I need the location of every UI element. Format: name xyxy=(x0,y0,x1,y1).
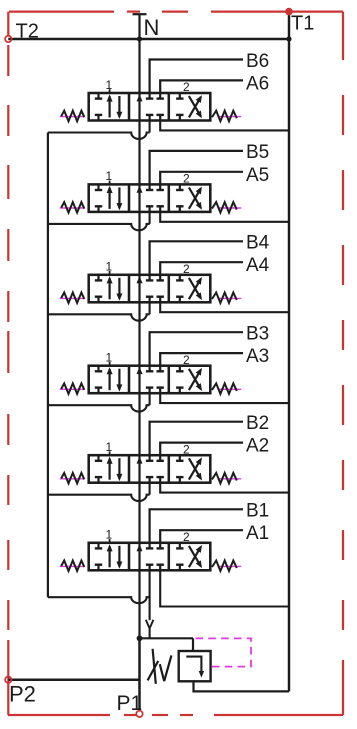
spring right of V1 xyxy=(212,561,237,572)
svg-text:2: 2 xyxy=(183,530,190,544)
svg-text:B3: B3 xyxy=(246,324,269,345)
wire carryover with crossover bridge below V5 xyxy=(48,224,150,230)
svg-text:A4: A4 xyxy=(246,255,270,276)
svg-text:B6: B6 xyxy=(246,51,269,72)
svg-text:A3: A3 xyxy=(246,346,269,367)
wire relief outlet to T1 bus xyxy=(194,681,290,691)
magenta mark left spring V2 xyxy=(60,478,84,480)
spring left of V1 xyxy=(61,561,84,572)
magenta mark left spring V3 xyxy=(60,388,84,390)
svg-text:2: 2 xyxy=(183,442,190,456)
junction N-T2 xyxy=(137,36,142,41)
valve V4 center position symbols xyxy=(137,276,143,283)
spring right of V6 xyxy=(212,111,237,122)
wire work port B1 xyxy=(150,509,243,543)
valve V5 center position symbols xyxy=(137,186,143,193)
svg-text:N: N xyxy=(144,15,160,40)
wire T1 return bus xyxy=(288,13,290,691)
wire left carryover bus xyxy=(47,133,49,598)
svg-text:T2: T2 xyxy=(16,20,39,42)
valve V4 position 2 symbols xyxy=(179,275,181,280)
relief valve internal flow path xyxy=(186,657,201,672)
valve V3 center position symbols xyxy=(137,367,143,374)
valve V3 body xyxy=(89,366,211,394)
valve V1 position 2 symbols xyxy=(179,543,181,548)
valve V1 body xyxy=(89,543,211,571)
valve V6 center position symbols xyxy=(137,94,143,101)
wire P2 pump line xyxy=(8,679,139,682)
valve V1 center position symbols xyxy=(137,544,143,551)
svg-text:2: 2 xyxy=(183,353,190,367)
wire left bus to P gallery with crossover bridge xyxy=(48,597,150,603)
svg-text:2: 2 xyxy=(183,80,190,94)
magenta mark right spring V2 xyxy=(218,478,242,480)
wire work port B3 xyxy=(150,332,243,366)
red dashed enclosure border left xyxy=(7,12,9,36)
valve V2 center position symbols xyxy=(137,456,143,463)
wire work port A1 xyxy=(160,530,243,543)
magenta mark right spring V5 xyxy=(218,207,242,209)
red dashed enclosure border top xyxy=(9,11,114,13)
svg-text:A6: A6 xyxy=(246,73,269,94)
wire carryover with crossover bridge below V4 xyxy=(48,314,150,320)
spring right of V5 xyxy=(212,202,237,213)
spring left of V2 xyxy=(61,473,84,484)
open arrowhead flow marker xyxy=(146,620,154,629)
svg-text:B2: B2 xyxy=(246,413,269,434)
spring right of V2 xyxy=(212,473,237,484)
wire T2 tank line xyxy=(8,38,289,41)
spring right of V3 xyxy=(212,383,237,394)
red dashed enclosure border bottom xyxy=(8,714,110,716)
wire return to T1 bus below V5 xyxy=(160,212,289,222)
wire work port B5 xyxy=(150,151,243,185)
valve V6 position 2 symbols xyxy=(179,93,181,98)
svg-text:A5: A5 xyxy=(246,165,269,186)
valve V3 position 2 symbols xyxy=(179,366,181,371)
wire work port A6 xyxy=(160,80,243,93)
wire work port B6 xyxy=(150,60,243,94)
svg-text:T1: T1 xyxy=(291,13,314,35)
wire V1 feed down to P gallery xyxy=(149,570,151,620)
wire carryover with crossover bridge below V6 xyxy=(48,133,150,139)
wire return to T1 bus below V2 xyxy=(160,483,289,493)
wire carryover with crossover bridge below V3 xyxy=(48,405,150,411)
wire work port B4 xyxy=(150,241,243,274)
wire work port A2 xyxy=(160,443,243,456)
valve V5 body xyxy=(89,184,211,212)
spring left of V4 xyxy=(61,293,84,304)
magenta mark left spring V4 xyxy=(60,297,84,299)
valve V1 position 1 symbols xyxy=(97,543,99,548)
spring left of V5 xyxy=(61,202,84,213)
svg-text:P2: P2 xyxy=(9,682,36,707)
red ring P2 port xyxy=(5,677,11,683)
valve V2 position 1 symbols xyxy=(97,455,99,460)
magenta mark right spring V3 xyxy=(218,388,242,390)
magenta mark left spring V5 xyxy=(60,207,84,209)
red dot T1 port xyxy=(285,8,293,16)
spring right of V4 xyxy=(212,293,237,304)
spring left of V6 xyxy=(61,111,84,122)
wire carryover with crossover bridge below V2 xyxy=(48,495,150,501)
svg-text:2: 2 xyxy=(183,262,190,276)
wire P to relief valve xyxy=(140,637,194,639)
valve V6 position 1 symbols xyxy=(97,93,99,98)
wire return to T1 bus below V4 xyxy=(160,302,289,312)
svg-text:B4: B4 xyxy=(246,233,270,254)
valve V5 position 1 symbols xyxy=(97,184,99,189)
magenta mark right spring V6 xyxy=(218,116,242,118)
svg-text:A2: A2 xyxy=(246,436,269,457)
spring left of V3 xyxy=(61,383,84,394)
wire N open-center line xyxy=(138,14,140,638)
valve V4 position 1 symbols xyxy=(97,275,99,280)
valve V3 position 1 symbols xyxy=(97,366,99,371)
valve V2 body xyxy=(89,455,211,483)
wire V1 return to T1 bus xyxy=(160,570,289,606)
magenta pilot line of relief valve xyxy=(196,638,252,666)
node N port tick xyxy=(133,13,147,15)
wire work port A5 xyxy=(160,172,243,185)
valve V5 position 2 symbols xyxy=(179,184,181,189)
magenta mark left spring V6 xyxy=(60,116,84,118)
valve V6 body xyxy=(89,93,211,121)
magenta mark right spring V4 xyxy=(218,297,242,299)
valve V4 body xyxy=(89,275,211,303)
red ring T2 port xyxy=(5,36,11,42)
valve V2 position 2 symbols xyxy=(179,455,181,460)
relief valve spring xyxy=(153,649,156,684)
wire P1 pump line xyxy=(138,638,141,711)
svg-text:A1: A1 xyxy=(246,523,269,544)
junction T1-T2 xyxy=(286,36,291,41)
wire work port A4 xyxy=(160,262,243,275)
relief valve body xyxy=(179,651,211,681)
wire work port B2 xyxy=(150,422,243,456)
svg-text:B1: B1 xyxy=(246,501,269,522)
wire return to T1 bus below V6 xyxy=(160,121,289,131)
wire work port A3 xyxy=(160,353,243,366)
svg-text:2: 2 xyxy=(183,172,190,186)
magenta mark left spring V1 xyxy=(60,565,84,567)
wire return to T1 bus below V3 xyxy=(160,393,289,403)
red ring P1 port xyxy=(136,711,142,717)
red dashed enclosure border right xyxy=(342,12,344,60)
junction P1-relief xyxy=(137,635,143,641)
svg-text:B5: B5 xyxy=(246,142,269,163)
magenta mark right spring V1 xyxy=(218,565,242,567)
relief valve internal arrowhead xyxy=(199,671,204,678)
